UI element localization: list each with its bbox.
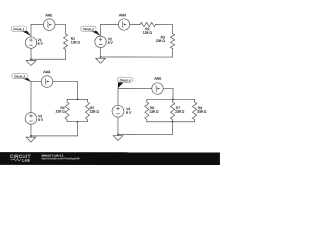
wire C3 bottom	[31, 135, 77, 137]
resistor R2	[140, 22, 156, 34]
wire C2 bottom	[101, 56, 173, 58]
node C3 top bus junction	[77, 99, 79, 101]
node C4 top bus junction	[172, 99, 174, 101]
label Circuit_2	[81, 26, 101, 36]
wire C1 right lower	[65, 49, 67, 59]
svg-text:238 Ω: 238 Ω	[156, 39, 166, 43]
svg-text:138 Ω: 138 Ω	[143, 31, 153, 35]
ground C2	[96, 57, 106, 63]
svg-text:AM5: AM5	[154, 77, 161, 81]
node C4 bottom-left junction	[117, 134, 119, 136]
voltage source V4	[112, 105, 132, 117]
resistor R8	[192, 99, 206, 121]
wire C4 left	[117, 89, 119, 135]
svg-text:338 Ω: 338 Ω	[197, 110, 207, 114]
wire C3 top	[31, 81, 77, 83]
svg-text:AM4: AM4	[43, 70, 50, 74]
svg-text:http://circuitlab.com/c/7hm5sb: http://circuitlab.com/c/7hm5sbg2648/	[41, 157, 79, 160]
resistor R5	[85, 99, 99, 121]
ground C1	[26, 59, 36, 65]
svg-text:8 V: 8 V	[126, 111, 132, 115]
svg-text:Circuit_3: Circuit_3	[14, 74, 25, 78]
svg-text:AM3: AM3	[119, 13, 126, 17]
wire C4 bottom bus	[147, 121, 195, 123]
node C3 bottom-left junction	[30, 135, 32, 137]
resistor R1	[64, 34, 81, 50]
svg-text:238 Ω: 238 Ω	[175, 110, 185, 114]
svg-text:138 Ω: 138 Ω	[71, 40, 81, 44]
svg-text:138 Ω: 138 Ω	[56, 110, 66, 114]
wire C3 feed riser	[76, 82, 78, 100]
wire C4 feed riser	[172, 89, 174, 100]
svg-text:LAB: LAB	[22, 158, 30, 162]
wire C2 V2-top riser	[100, 24, 102, 36]
wire C2 top left	[101, 23, 140, 25]
svg-text:138 Ω: 138 Ω	[149, 110, 159, 114]
svg-text:Circuit_1: Circuit_1	[13, 27, 24, 31]
voltage source V2	[95, 36, 114, 47]
ammeter AM5	[152, 77, 163, 95]
resistor R4	[56, 99, 70, 121]
svg-text:Circuit_2: Circuit_2	[83, 27, 94, 31]
wire C3 bottom drop	[76, 122, 78, 136]
svg-text:Circuit_4: Circuit_4	[120, 78, 131, 82]
wire C2 right upper	[172, 25, 174, 34]
resistor R7	[170, 99, 184, 121]
watermark bar	[0, 152, 220, 165]
svg-text:alamo2 / Lab 2.1: alamo2 / Lab 2.1	[41, 153, 63, 157]
label Circuit_1	[11, 26, 31, 36]
node C3 bottom bus junction	[77, 121, 79, 123]
resistor R6	[145, 99, 159, 121]
svg-text:8 V: 8 V	[108, 41, 114, 45]
wire C1 left	[30, 25, 32, 60]
node C1 bottom junction	[30, 58, 32, 60]
wire C3 bottom bus	[67, 121, 87, 123]
wire C4 top bus	[147, 98, 195, 100]
voltage source V1	[25, 37, 43, 48]
ground C3	[26, 136, 36, 142]
node C2 bottom junction	[100, 56, 102, 58]
wire C3 top bus	[67, 98, 87, 100]
ground C4	[113, 134, 123, 140]
resistor R3	[156, 34, 175, 49]
ammeter AM4	[41, 70, 53, 87]
wire C3 left	[30, 82, 32, 136]
wire C1 bottom	[31, 58, 65, 60]
ammeter AM2	[43, 13, 55, 30]
label Circuit_4	[117, 77, 133, 88]
wire C4 bottom drop	[172, 122, 174, 135]
svg-text:8 V: 8 V	[38, 42, 44, 46]
wire C2 below V2	[100, 47, 102, 56]
wire C1 top	[31, 24, 65, 26]
voltage source V3	[25, 113, 44, 125]
svg-text:AM2: AM2	[45, 13, 52, 17]
wire C4 bottom	[118, 133, 173, 135]
wire C2 right lower	[172, 49, 174, 58]
wire C1 right upper	[65, 25, 67, 34]
node C4 bottom bus junction	[172, 121, 174, 123]
label Circuit_3	[12, 73, 31, 82]
svg-text:238 Ω: 238 Ω	[90, 110, 100, 114]
svg-text:8 V: 8 V	[38, 118, 44, 122]
wire C4 top	[118, 88, 173, 90]
ammeter AM3	[118, 13, 129, 30]
wire C2 top right	[156, 24, 173, 26]
